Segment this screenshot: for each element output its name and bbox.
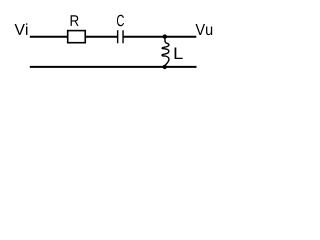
wire bottom return rail (30, 66, 197, 68)
label C (117, 15, 124, 26)
resistor R body (68, 31, 86, 43)
label Vu (196, 24, 213, 35)
label R (71, 15, 79, 26)
inductor L coil (162, 38, 169, 65)
wire capacitor right plate to Vu (123, 36, 196, 38)
node top junction dot (163, 34, 167, 38)
wire Vi to capacitor left plate (30, 36, 117, 38)
label L (175, 48, 183, 60)
label Vi (15, 23, 28, 35)
capacitor C plates (118, 30, 123, 43)
node bottom junction dot (163, 65, 167, 69)
